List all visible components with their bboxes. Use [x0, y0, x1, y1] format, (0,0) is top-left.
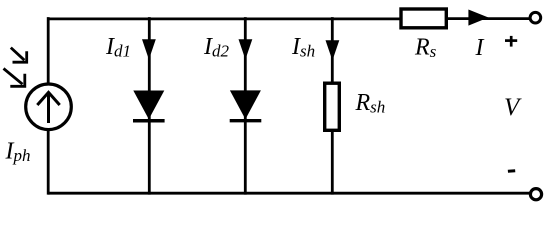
- current arrow Id1: [142, 39, 156, 59]
- wire top right segment: [446, 17, 529, 20]
- resistor Rs: [401, 9, 446, 28]
- wire branch D1: [148, 17, 151, 195]
- svg-text:Rsh: Rsh: [355, 90, 386, 117]
- current source U1 Iph circle: [26, 84, 72, 130]
- terminal bottom: [530, 189, 541, 200]
- svg-text:Rs: Rs: [414, 34, 437, 61]
- light arrow 1: [11, 48, 27, 63]
- diode D1: [133, 91, 165, 121]
- svg-text:Id2: Id2: [203, 34, 230, 61]
- diode D2: [230, 90, 262, 120]
- wire left rail upper: [47, 17, 50, 84]
- wire left rail lower: [47, 130, 50, 195]
- light arrow 2: [4, 69, 25, 87]
- label plus: [505, 36, 517, 47]
- wire bottom bus: [48, 192, 530, 195]
- current arrow I: [468, 10, 488, 26]
- wire branch Rsh upper: [331, 17, 334, 83]
- svg-text:I: I: [475, 35, 485, 61]
- terminal top: [530, 12, 541, 23]
- svg-text:V: V: [504, 94, 522, 121]
- resistor Rsh: [325, 83, 340, 130]
- current arrow Id2: [239, 39, 253, 59]
- wire branch D2: [244, 17, 247, 195]
- current source arrow: [37, 92, 59, 123]
- wire top bus: [48, 17, 400, 20]
- current arrow Ish: [326, 40, 340, 60]
- svg-text:Ish: Ish: [291, 34, 315, 61]
- label minus: [508, 169, 515, 173]
- svg-text:Id1: Id1: [105, 34, 131, 61]
- svg-text:Iph: Iph: [5, 139, 31, 166]
- wire branch Rsh lower: [331, 131, 334, 195]
